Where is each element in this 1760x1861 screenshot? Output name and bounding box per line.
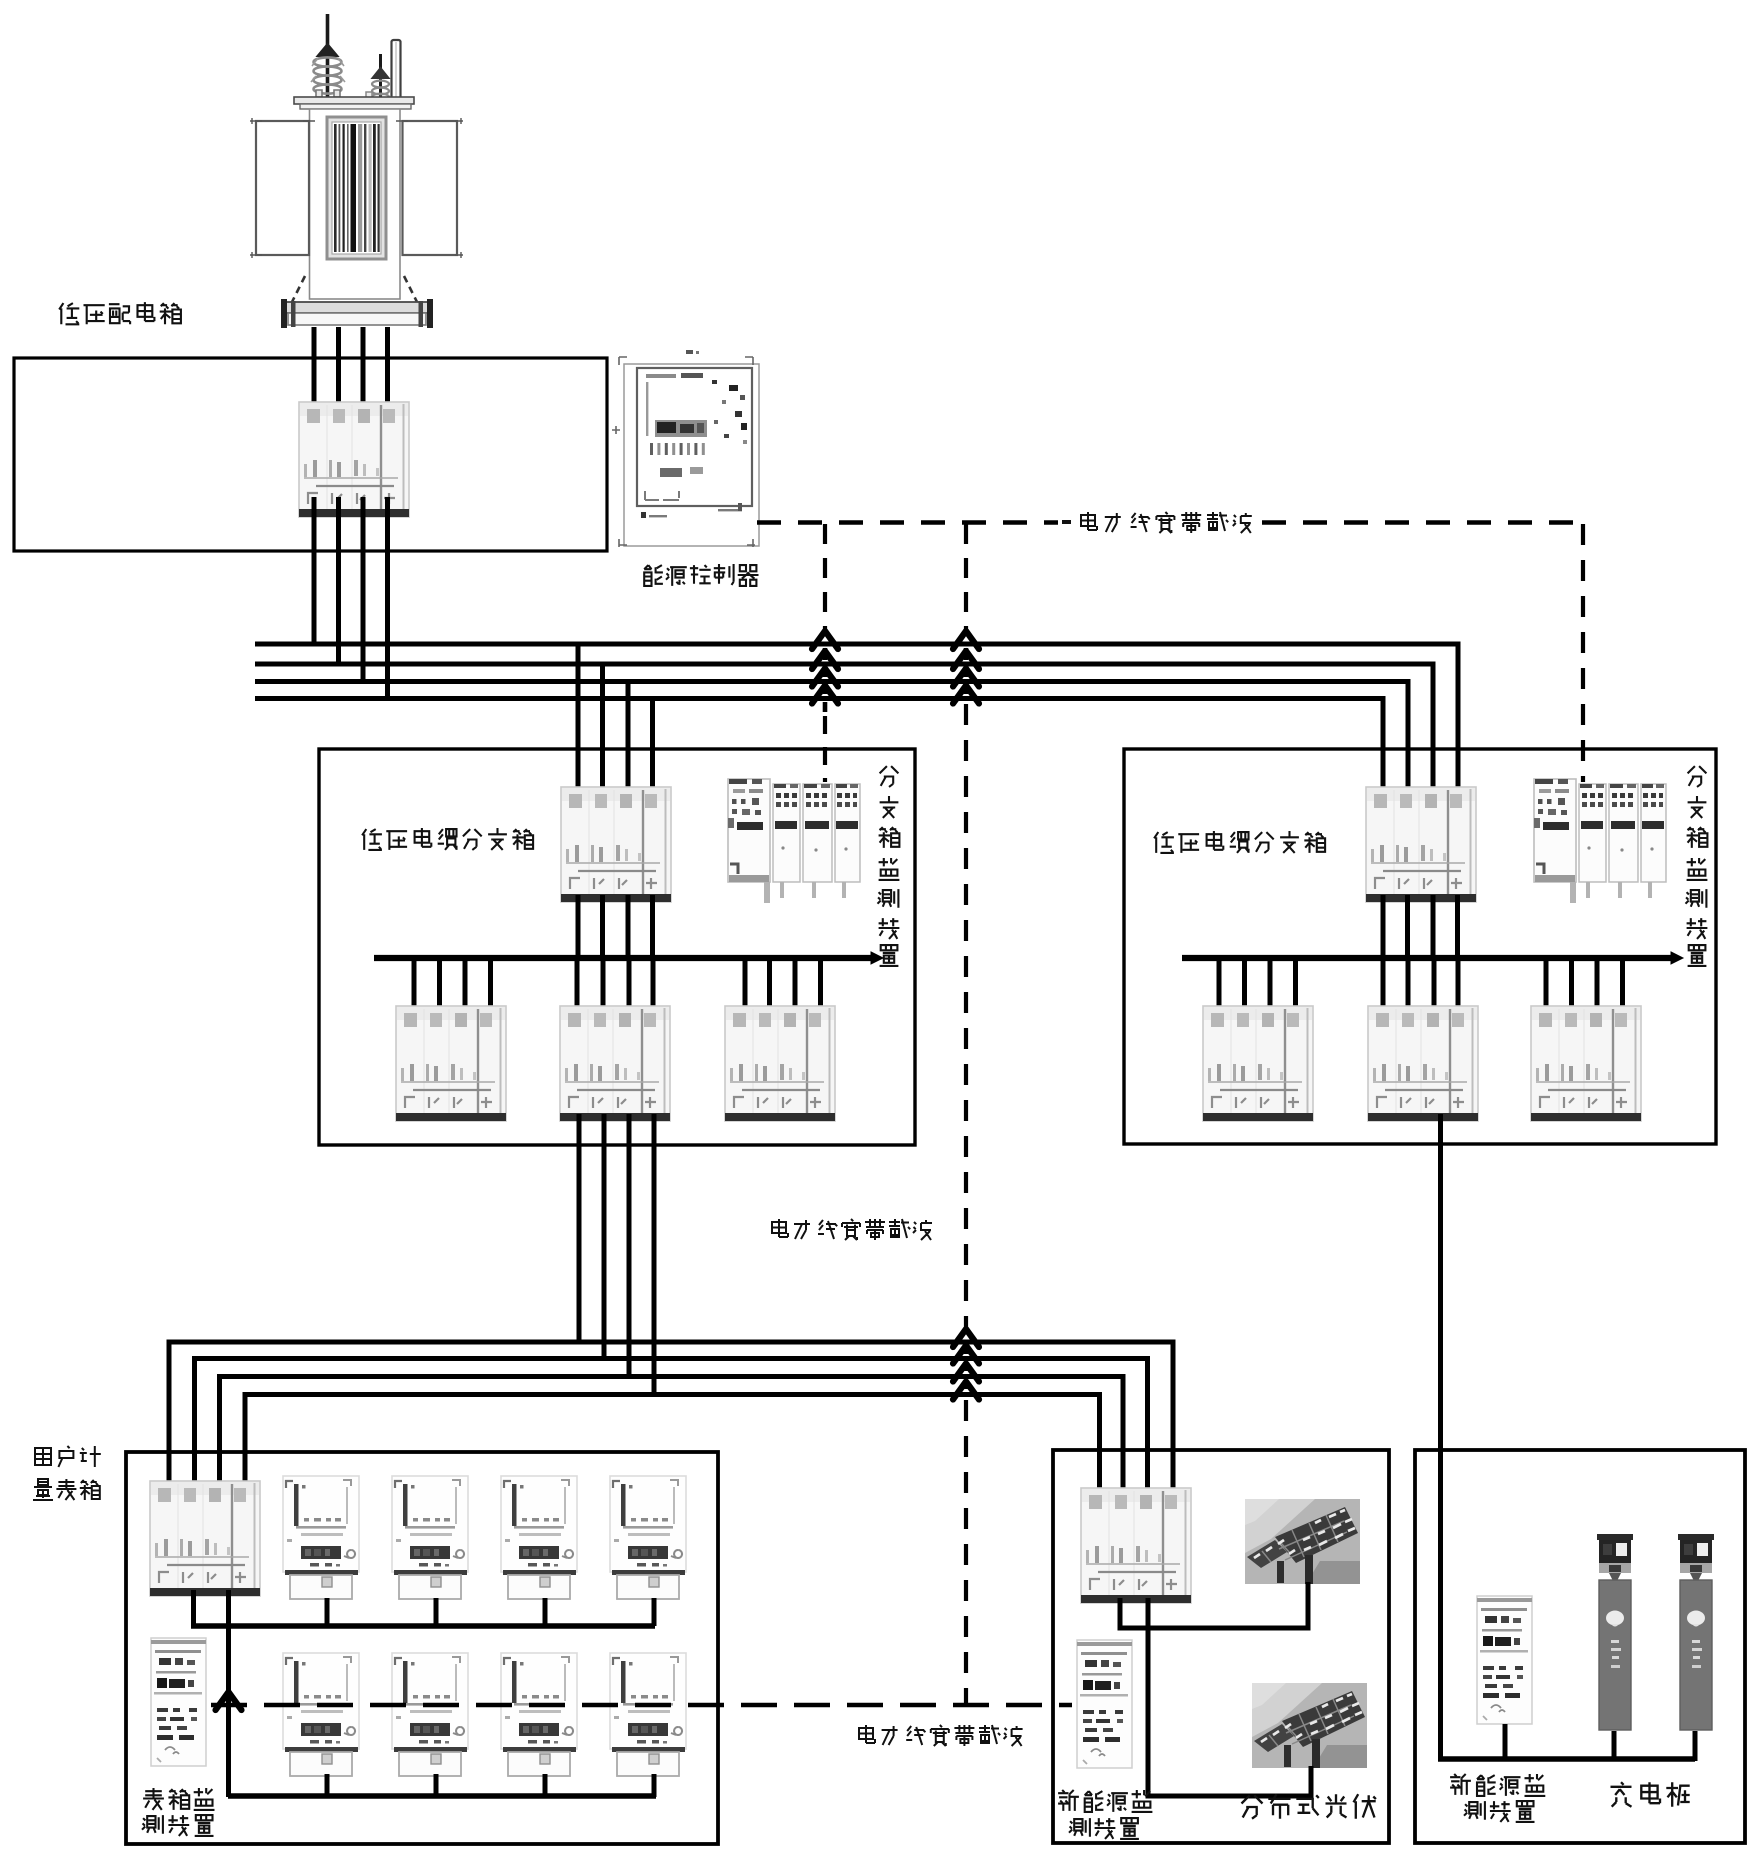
- feeder breaker C (left box): [725, 1006, 835, 1121]
- signal coupler arrows at distribution lines (middle): [953, 1329, 979, 1400]
- wire: bus taps to feeder breaker C (left): [745, 958, 821, 1012]
- wire: bus L3 drop to left branch box: [626, 682, 631, 801]
- wire: bus taps to feeder breaker B (right): [1383, 958, 1458, 1012]
- wire: bus taps to feeder breaker C (right): [1546, 958, 1623, 1012]
- wire: monitor tap: [1503, 1724, 1508, 1759]
- label: low-voltage cable branch box (left): [362, 828, 533, 850]
- feeder bus L2: [255, 664, 1433, 800]
- meter bus row 1: [191, 1623, 655, 1629]
- PLC dashed drop to left branch monitor: [823, 524, 827, 634]
- feeder bus L3: [255, 682, 1408, 801]
- branch breaker QF1 (left box main): [561, 787, 671, 902]
- energy meter M6: [392, 1653, 468, 1776]
- wire: bus L2 drop to left branch box: [600, 664, 605, 800]
- distribution line 4: [245, 1395, 1100, 1493]
- meter bus row 2: [228, 1793, 656, 1799]
- branch box monitor (right): [1534, 779, 1666, 903]
- low-voltage distribution box: [14, 358, 607, 551]
- energy meter M7: [501, 1653, 577, 1776]
- transformer T1: [250, 14, 463, 328]
- charging pile 2: [1678, 1534, 1714, 1730]
- energy meter M4: [610, 1476, 686, 1599]
- feeder bus N: [255, 699, 1383, 801]
- energy meter M8: [610, 1653, 686, 1776]
- wire: bus N drop to left branch box: [650, 699, 655, 801]
- energy meter M5: [283, 1653, 359, 1776]
- wire: bus L1 drop to left branch box: [576, 644, 581, 800]
- wire: QF0 to feeder bus L2: [336, 497, 341, 664]
- feeder breaker B (right box): [1368, 1006, 1478, 1121]
- energy controller: [612, 350, 759, 547]
- circuit breaker QF0: [299, 402, 409, 517]
- wire: QF3 to meter bus row 1: [191, 1590, 196, 1627]
- wire: bus taps to feeder breaker A (left): [414, 958, 491, 1012]
- feeder bus L1 (to right branch box): [255, 644, 1458, 800]
- branch breaker QF2 (right box main): [1366, 787, 1476, 902]
- wire: bus taps to feeder breaker B (left): [577, 958, 653, 1012]
- PLC dashed drop (middle long): [964, 524, 968, 634]
- wire: QF2 to internal bus (4): [1383, 895, 1458, 958]
- meter box breaker QF3: [150, 1481, 260, 1596]
- right low-voltage cable branch box: [1124, 749, 1716, 1144]
- feeder breaker A (right box): [1203, 1006, 1313, 1121]
- user metering box: [126, 1452, 718, 1844]
- solar PV array 2: [1252, 1683, 1367, 1768]
- wire: left feeder B phase 3 down: [627, 1114, 632, 1379]
- wire: QF0 to feeder bus L3: [361, 497, 366, 681]
- internal bus of right branch box: [1182, 952, 1683, 964]
- energy meter M2: [392, 1476, 468, 1599]
- wire: QF0 to feeder bus L1: [312, 497, 317, 644]
- label: user metering box: [33, 1446, 101, 1500]
- wire: left feeder B phase 1 down: [577, 1114, 582, 1344]
- feeder breaker C (right box): [1531, 1006, 1641, 1121]
- wire: QF4 to PV array 2: [1148, 1598, 1311, 1796]
- meter tap stubs row 1: [327, 1598, 654, 1626]
- label: power line broadband carrier (middle): [772, 1219, 932, 1240]
- wire: left feeder B neutral down: [652, 1114, 657, 1397]
- PLC dashed drop to right branch monitor: [1581, 524, 1585, 782]
- charging pile 1: [1597, 1534, 1633, 1730]
- label: charging pile: [1611, 1782, 1690, 1807]
- wire: left feeder B phase 2 down: [602, 1114, 607, 1361]
- wire: bus taps to feeder breaker A (right): [1219, 958, 1296, 1012]
- energy meter M1: [283, 1476, 359, 1599]
- distribution line 2: [195, 1359, 1148, 1493]
- branch box monitor (left): [728, 779, 860, 903]
- label: new-energy monitoring device (PV box): [1058, 1790, 1152, 1839]
- label: meter box monitoring device: [142, 1788, 215, 1836]
- PLC dashed segment into left monitor: [823, 716, 827, 782]
- charging box monitor: [1477, 1596, 1532, 1724]
- charging pile box: [1415, 1450, 1745, 1843]
- distributed PV box: [1053, 1450, 1389, 1843]
- distribution line 1 (to meter box / PV box): [169, 1342, 1173, 1492]
- wire: QF0 to feeder bus N: [385, 497, 390, 698]
- meter box monitor: [151, 1638, 206, 1766]
- label: low-voltage distribution box: [59, 302, 181, 324]
- solar PV array 1: [1245, 1499, 1360, 1584]
- energy meter M3: [501, 1476, 577, 1599]
- wire: charging pile 2 tap: [1693, 1731, 1698, 1761]
- PLC dashed segment mid-span: [964, 704, 968, 1330]
- wire: QF4 to PV array 1: [1120, 1582, 1308, 1628]
- feeder breaker A (left box): [396, 1006, 506, 1121]
- charging box bus: [1438, 1756, 1695, 1761]
- signal coupler arrows at feeder bus (left): [812, 631, 838, 712]
- wire: QF1 to internal bus (4): [578, 895, 653, 958]
- label: distributed photovoltaics: [1242, 1794, 1376, 1819]
- internal bus of left branch box: [374, 952, 883, 964]
- label: low-voltage cable branch box (right): [1154, 831, 1325, 853]
- wire: QF3 to meter bus row 2 (long): [226, 1590, 231, 1797]
- signal coupler arrows at feeder bus (middle): [953, 631, 979, 704]
- PV box monitor: [1077, 1640, 1132, 1768]
- PLC dashed segment to meter-box line: [964, 1400, 968, 1705]
- distribution line 3: [220, 1377, 1124, 1493]
- meter tap stubs row 2: [327, 1774, 654, 1797]
- left low-voltage cable branch box: [319, 749, 915, 1145]
- wire: charging pile 1 tap: [1612, 1731, 1617, 1759]
- feeder breaker B (left box): [560, 1006, 670, 1121]
- label: branch box monitoring device (left, vertical): [878, 766, 900, 966]
- label: new-energy monitoring device (charging box): [1450, 1774, 1545, 1822]
- label: branch box monitoring device (right, vertical): [1686, 766, 1708, 966]
- PV box breaker QF4: [1081, 1488, 1191, 1603]
- label: power line broadband carrier (bottom): [859, 1725, 1023, 1746]
- label: power line broadband carrier (top): [1062, 512, 1252, 533]
- label: energy controller: [644, 564, 758, 586]
- PLC carrier dashed line (horizontal, from energy controller): [757, 520, 1583, 524]
- wire: right feeder B output down to charging box: [1438, 1114, 1443, 1761]
- PLC carrier dashed line (meter box to PV box): [211, 1692, 1072, 1710]
- wire: transformer to breaker QF0 (4 conductors): [314, 327, 388, 420]
